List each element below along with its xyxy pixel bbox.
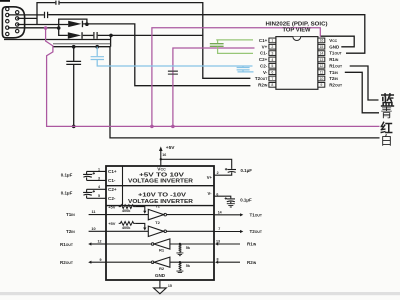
svg-text:12: 12 — [319, 64, 323, 68]
svg-text:R1IN: R1IN — [247, 242, 257, 247]
svg-text:6: 6 — [271, 70, 273, 74]
svg-text:GND: GND — [155, 273, 166, 278]
svg-text:0.1μF: 0.1μF — [241, 168, 253, 173]
svg-text:R2OUT: R2OUT — [60, 260, 74, 265]
svg-text:C2-: C2- — [108, 196, 116, 201]
svg-text:C2-: C2- — [260, 63, 268, 68]
svg-text:10: 10 — [91, 227, 95, 231]
svg-text:7: 7 — [271, 77, 273, 81]
svg-text:4: 4 — [98, 185, 100, 189]
svg-text:R1IN: R1IN — [329, 57, 339, 62]
svg-text:+5V: +5V — [108, 221, 116, 226]
svg-text:13: 13 — [216, 239, 220, 243]
svg-text:C1+: C1+ — [108, 169, 117, 174]
svg-text:C1+: C1+ — [259, 38, 268, 43]
svg-text:14: 14 — [218, 210, 222, 214]
svg-text:7: 7 — [218, 227, 220, 231]
svg-text:16: 16 — [162, 153, 166, 157]
svg-text:T2OUT: T2OUT — [255, 76, 268, 81]
svg-text:VOLTAGE INVERTER: VOLTAGE INVERTER — [128, 199, 193, 205]
svg-text:0.1μF: 0.1μF — [61, 172, 73, 177]
svg-text:3: 3 — [98, 176, 100, 180]
svg-text:GND: GND — [329, 44, 340, 49]
svg-text:T2: T2 — [155, 220, 160, 225]
svg-text:8: 8 — [271, 83, 273, 87]
svg-text:R2IN: R2IN — [258, 82, 268, 87]
svg-text:11: 11 — [320, 70, 324, 74]
svg-text:C2+: C2+ — [259, 57, 268, 62]
svg-text:V-: V- — [263, 70, 268, 75]
svg-text:VOLTAGE INVERTER: VOLTAGE INVERTER — [128, 179, 193, 185]
svg-text:+5V TO 10V: +5V TO 10V — [139, 172, 185, 178]
svg-text:12: 12 — [98, 240, 102, 244]
svg-text:400k: 400k — [122, 209, 131, 213]
svg-text:青: 青 — [380, 106, 392, 120]
svg-text:V-: V- — [208, 191, 213, 196]
svg-text:15: 15 — [319, 45, 323, 49]
svg-text:R2: R2 — [159, 266, 165, 271]
svg-text:9: 9 — [320, 83, 322, 87]
svg-text:5: 5 — [271, 64, 273, 68]
svg-text:C1-: C1- — [108, 178, 116, 183]
svg-text:1: 1 — [271, 39, 273, 43]
svg-text:9: 9 — [100, 258, 102, 262]
svg-text:TOP VIEW: TOP VIEW — [283, 27, 311, 33]
svg-text:2: 2 — [271, 45, 273, 49]
svg-text:R2IN: R2IN — [247, 260, 257, 265]
svg-text:V+: V+ — [207, 175, 213, 180]
svg-text:16: 16 — [319, 39, 323, 43]
svg-text:T1OUT: T1OUT — [250, 212, 263, 217]
svg-text:10: 10 — [319, 77, 323, 81]
svg-text:T2OUT: T2OUT — [250, 229, 263, 234]
svg-text:VCC: VCC — [329, 38, 337, 43]
svg-text:T1IN: T1IN — [66, 212, 75, 217]
svg-text:V+: V+ — [262, 44, 268, 49]
svg-text:5: 5 — [98, 194, 100, 198]
svg-text:11: 11 — [91, 210, 95, 214]
svg-text:R2OUT: R2OUT — [329, 82, 343, 87]
svg-text:T1OUT: T1OUT — [329, 51, 342, 56]
svg-text:0.1μF: 0.1μF — [240, 197, 252, 202]
svg-text:R1OUT: R1OUT — [329, 63, 343, 68]
svg-text:C2+: C2+ — [108, 187, 117, 192]
svg-text:R1OUT: R1OUT — [60, 242, 74, 247]
svg-text:13: 13 — [319, 58, 323, 62]
svg-text:400k: 400k — [122, 226, 131, 230]
svg-text:2: 2 — [217, 171, 219, 175]
svg-text:白: 白 — [380, 133, 392, 148]
svg-text:C1-: C1- — [260, 51, 268, 56]
svg-text:T1IN: T1IN — [329, 70, 338, 75]
svg-text:3: 3 — [271, 51, 273, 55]
svg-text:R1: R1 — [159, 248, 165, 253]
svg-text:6: 6 — [216, 192, 218, 196]
svg-text:1: 1 — [98, 167, 100, 171]
svg-text:0.1μF: 0.1μF — [61, 190, 73, 195]
svg-text:4: 4 — [271, 58, 273, 62]
svg-text:T1: T1 — [155, 203, 160, 208]
svg-text:+5V: +5V — [108, 204, 116, 209]
svg-text:14: 14 — [319, 51, 323, 55]
svg-text:+10V TO -10V: +10V TO -10V — [138, 192, 187, 198]
svg-text:T2IN: T2IN — [66, 229, 75, 234]
svg-text:+5V: +5V — [166, 145, 175, 151]
svg-text:T2IN: T2IN — [329, 76, 338, 81]
svg-text:HIN202E (PDIP, SOIC): HIN202E (PDIP, SOIC) — [266, 21, 328, 27]
svg-text:8: 8 — [217, 258, 219, 262]
svg-text:15: 15 — [168, 284, 172, 288]
